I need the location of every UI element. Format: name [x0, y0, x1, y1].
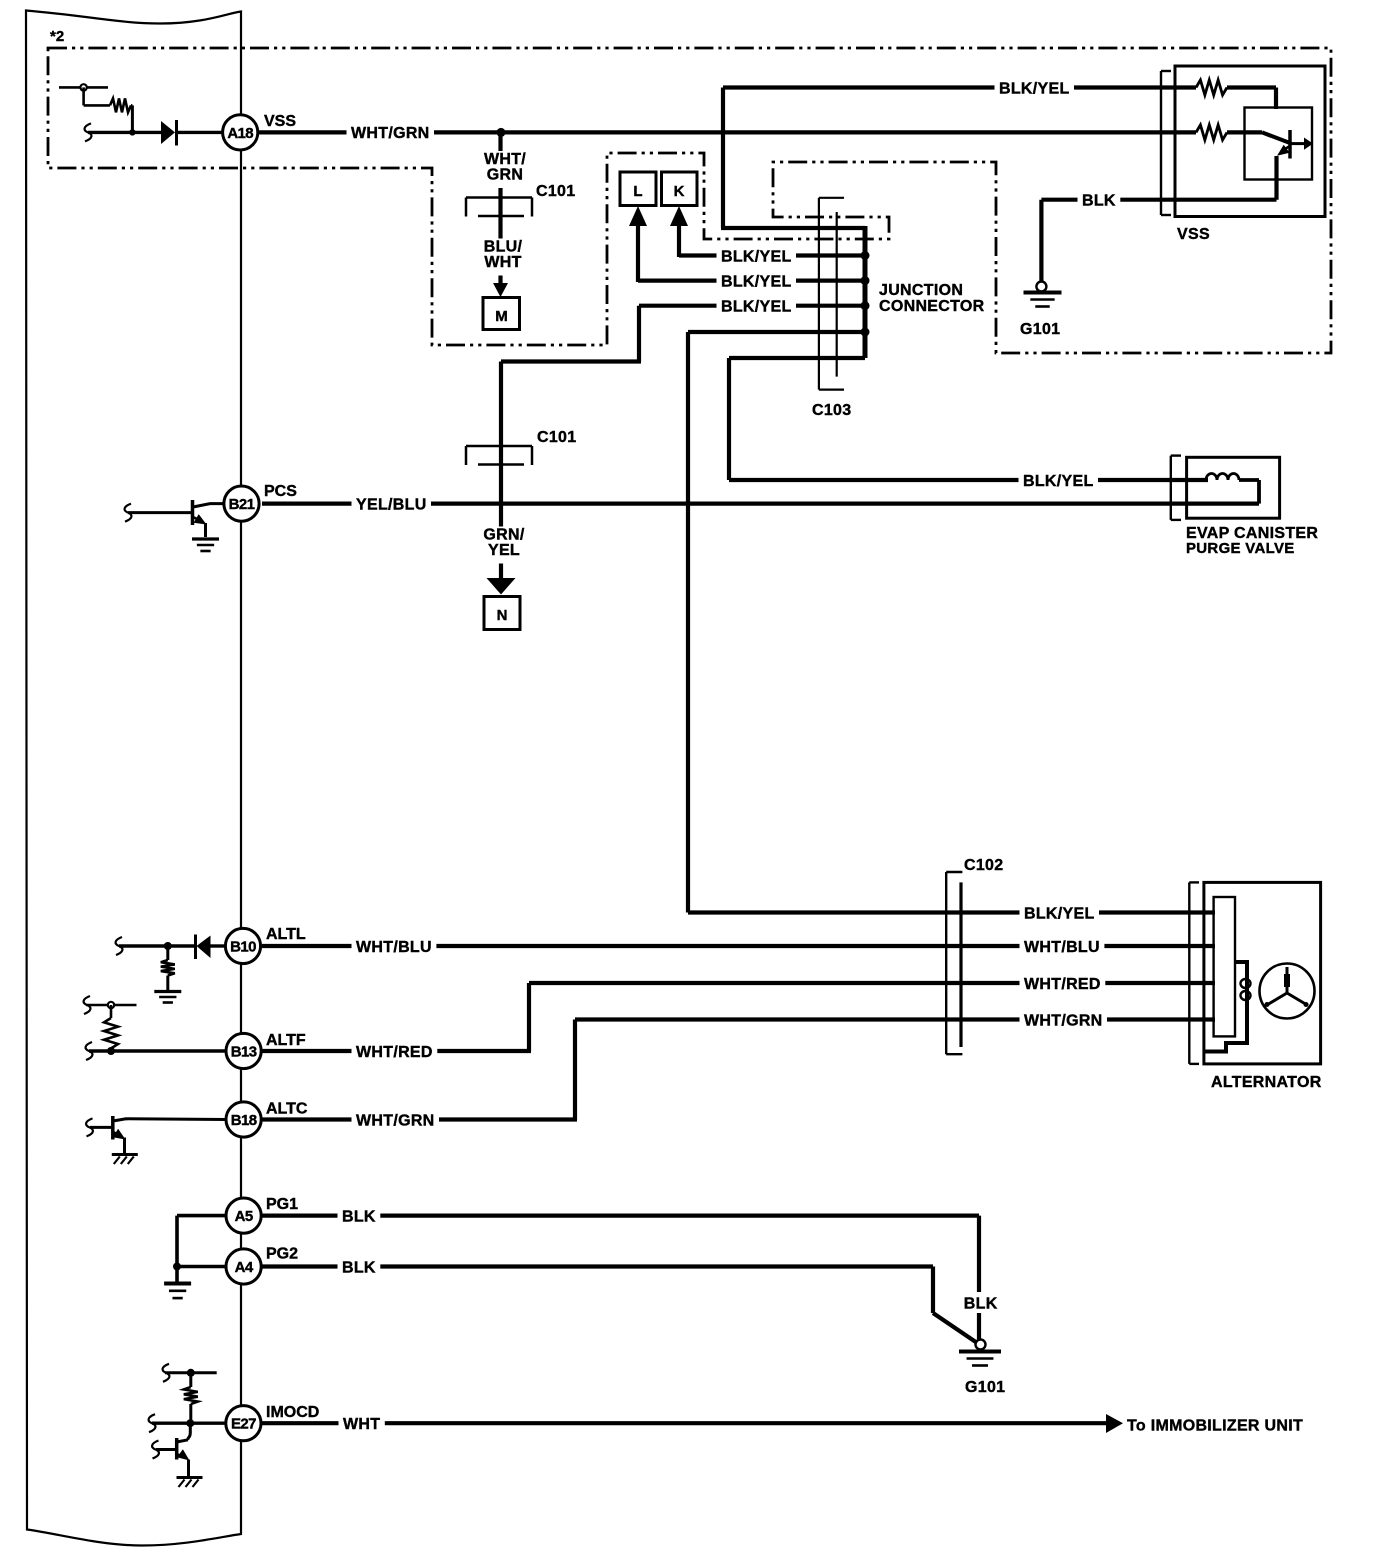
- resistor pull-up at E27: [165, 1373, 217, 1423]
- label BLK (PG2): [338, 1256, 381, 1277]
- svg-text:C101: C101: [536, 183, 575, 200]
- resistor pull-up at A18: [59, 84, 132, 132]
- ground at B10: [154, 992, 181, 1003]
- wire BLK/YEL to K box: [679, 226, 865, 257]
- transistor box in VSS: [1245, 108, 1313, 180]
- connector pin B21: [224, 486, 259, 521]
- box N: [484, 597, 520, 630]
- wire YEL/BLU (B21 PCS row): [262, 502, 1259, 506]
- wire WHT/GRN (B18 ALTC row): [262, 1020, 1215, 1120]
- wire break B21 internal: [125, 504, 132, 522]
- wire break B10 internal: [116, 937, 123, 955]
- junction connector bus C103: [863, 226, 868, 358]
- svg-text:CONNECTOR: CONNECTOR: [879, 298, 985, 315]
- label *2: [50, 28, 64, 45]
- svg-text:N: N: [497, 607, 508, 624]
- label BLK/YEL (EVAP): [1019, 470, 1099, 491]
- svg-text:WHT/GRN: WHT/GRN: [1024, 1012, 1103, 1029]
- node dot bus 4: [861, 328, 870, 337]
- wire WHT/GRN (A18 VSS row): [258, 130, 1196, 134]
- svg-text:VSS: VSS: [264, 113, 296, 130]
- resistor to ground at B10: [161, 946, 175, 991]
- diode D2 at B10: [196, 935, 211, 960]
- wire A18 internal row: [88, 131, 223, 134]
- svg-text:BLK: BLK: [1082, 193, 1116, 210]
- connector bracket at VSS: [1161, 71, 1171, 215]
- wire break A18 internal: [85, 123, 92, 141]
- svg-text:M: M: [495, 308, 508, 325]
- wire A5 internal row: [177, 1214, 226, 1218]
- svg-text:C101: C101: [537, 429, 576, 446]
- svg-text:WHT/GRN: WHT/GRN: [351, 125, 430, 142]
- dash-dot harness boundary (*2 region): [48, 48, 1331, 353]
- wire A4 internal row: [177, 1265, 226, 1269]
- svg-text:B21: B21: [229, 496, 255, 513]
- svg-text:WHT: WHT: [484, 254, 521, 271]
- solenoid coil in EVAP valve: [1171, 474, 1259, 504]
- wire E27 internal row: [152, 1421, 226, 1424]
- ground at B18 (hatched): [112, 1155, 138, 1165]
- svg-text:WHT/BLU: WHT/BLU: [1024, 939, 1100, 956]
- connector pin A5: [226, 1198, 261, 1233]
- arrowhead To IMMOBILIZER UNIT: [1106, 1414, 1123, 1433]
- label EVAP CANISTER PURGE VALVE: [1186, 525, 1318, 557]
- box M (meter): [483, 298, 520, 330]
- wire BLK/YEL to N box column: [501, 306, 865, 362]
- svg-text:WHT/GRN: WHT/GRN: [356, 1112, 435, 1129]
- svg-text:C103: C103: [812, 402, 851, 419]
- svg-text:*2: *2: [50, 28, 64, 45]
- wire WHT/GRN vertical drop to C101/M: [498, 132, 502, 284]
- label BLK (PG1): [338, 1205, 381, 1226]
- svg-text:L: L: [633, 183, 642, 200]
- label G101 (bottom): [965, 1379, 1005, 1396]
- ground G101 (bottom): [959, 1340, 1001, 1366]
- label WHT (E27 row): [339, 1413, 385, 1434]
- svg-text:C102: C102: [964, 857, 1003, 874]
- svg-text:BLU/: BLU/: [484, 239, 523, 256]
- label BLK/YEL (N row): [717, 295, 797, 316]
- svg-text:PG1: PG1: [266, 1196, 298, 1213]
- wire break E27 top: [163, 1364, 170, 1382]
- svg-text:B13: B13: [231, 1044, 257, 1061]
- label WHT/GRN (C101 drop): [480, 151, 530, 188]
- label BLK/YEL (top): [995, 77, 1075, 98]
- alternator internal connector strip: [1214, 897, 1235, 1036]
- ground at E27 (hatched): [177, 1478, 203, 1488]
- label VSS: [1177, 226, 1210, 243]
- label BLK/YEL (K row): [717, 245, 797, 266]
- node dot bus 2: [861, 276, 870, 285]
- wire break E27 base: [152, 1441, 159, 1459]
- label VSS pin name: [264, 113, 296, 130]
- node dot E27 row: [186, 1419, 194, 1427]
- wire GRN/YEL vertical through C101 to N box: [499, 362, 503, 581]
- svg-text:WHT/RED: WHT/RED: [356, 1044, 433, 1061]
- transistor Q1 base bar: [1288, 130, 1292, 159]
- label BLU/WHT (to M): [480, 239, 527, 276]
- wire BLK/YEL vertical from top to junction connector: [721, 88, 865, 229]
- wire BLK/YEL junction to alternator: [688, 332, 1215, 913]
- connector C101 (middle): [466, 446, 532, 465]
- wire B13 internal row: [89, 1049, 226, 1052]
- svg-text:E27: E27: [231, 1416, 256, 1433]
- svg-text:BLK: BLK: [342, 1259, 376, 1276]
- label ALTF pin name: [266, 1032, 306, 1049]
- pin stub WHT/GRN: [1204, 1018, 1215, 1022]
- alternator box: [1204, 882, 1321, 1064]
- arrow into N box: [487, 578, 516, 595]
- svg-text:A18: A18: [227, 125, 253, 142]
- box K: [662, 172, 698, 206]
- transistor Q3 at B18 (ALTC driver): [90, 1116, 226, 1153]
- arrowhead collector: [1304, 138, 1313, 150]
- node junction dot on WHT/GRN at C101 drop: [497, 128, 506, 137]
- box L: [620, 172, 656, 206]
- connector bracket at alternator: [1189, 882, 1199, 1064]
- wire R1 to transistor: [1227, 88, 1276, 110]
- connector pin A4: [226, 1249, 261, 1284]
- svg-text:WHT: WHT: [343, 1416, 380, 1433]
- arrowhead into L: [629, 206, 647, 226]
- svg-text:GRN/: GRN/: [483, 527, 524, 544]
- svg-text:G101: G101: [965, 1379, 1005, 1396]
- svg-text:WHT/RED: WHT/RED: [1024, 976, 1101, 993]
- wire BLK to G101: [1039, 200, 1043, 281]
- wire emitter to BLK: [1041, 156, 1276, 200]
- label BLK (VSS ground): [1078, 189, 1121, 210]
- svg-text:IMOCD: IMOCD: [266, 1404, 319, 1421]
- svg-text:ALTC: ALTC: [266, 1101, 308, 1118]
- resistor R1 in VSS: [1196, 80, 1227, 95]
- label WHT/GRN (B18 row): [352, 1109, 440, 1130]
- connector C102: [946, 872, 962, 1054]
- wire BLK (A4 PG2 row): [262, 1267, 977, 1343]
- label BLK (G101 bottom): [959, 1292, 1002, 1313]
- svg-text:BLK/YEL: BLK/YEL: [721, 273, 792, 290]
- ground at A5/A4: [164, 1284, 191, 1299]
- EVAP purge valve box: [1187, 457, 1280, 518]
- resistor pull-up at B13: [84, 996, 137, 1051]
- connector pin B13: [226, 1033, 261, 1068]
- label WHT/BLU (B10 row): [352, 936, 437, 957]
- node dot B13 internal: [107, 1047, 115, 1055]
- label PG2 pin name: [266, 1246, 298, 1263]
- label WHT/RED (alternator): [1020, 973, 1106, 994]
- pin stub BLK/YEL: [1204, 911, 1215, 915]
- svg-text:WHT/: WHT/: [484, 151, 526, 168]
- transistor Q4 at E27 (IMOCD driver): [156, 1423, 190, 1477]
- svg-text:ALTERNATOR: ALTERNATOR: [1211, 1074, 1322, 1091]
- svg-text:ALTF: ALTF: [266, 1032, 306, 1049]
- label YEL/BLU (B21 row): [352, 493, 432, 514]
- node dot B10 internal: [164, 942, 172, 950]
- VSS sensor box: [1175, 66, 1325, 217]
- alternator stator symbol: [1260, 964, 1315, 1019]
- wire break B13 internal: [86, 1042, 93, 1060]
- svg-text:BLK: BLK: [342, 1208, 376, 1225]
- svg-text:BLK/YEL: BLK/YEL: [721, 299, 792, 316]
- transistor Q1 collector: [1290, 142, 1305, 145]
- node dot E27 top: [187, 1369, 195, 1377]
- wire BLK/YEL junction to EVAP purge valve: [729, 358, 1208, 480]
- connector pin B18: [226, 1102, 261, 1137]
- arrowhead emitter: [1277, 145, 1290, 156]
- label WHT/GRN (alternator): [1020, 1009, 1108, 1030]
- label C102: [964, 857, 1003, 874]
- wire A5-A4 ground link: [175, 1216, 179, 1282]
- wire R2 to transistor base: [1227, 132, 1289, 142]
- svg-text:BLK: BLK: [964, 1295, 998, 1312]
- node dot bus 3: [861, 301, 870, 310]
- svg-text:PCS: PCS: [264, 483, 297, 500]
- wire WHT/BLU (B10 ALTL row): [262, 944, 1215, 948]
- connector C101 (top): [466, 198, 532, 217]
- wire BLK (A5 PG1 row): [262, 1216, 979, 1339]
- wire WHT/RED (B13 ALTF row): [262, 983, 1215, 1051]
- label WHT/GRN (A18 row): [347, 122, 435, 143]
- ground G101 (VSS): [1024, 282, 1062, 307]
- label GRN/YEL (to N): [479, 527, 528, 564]
- ground at B21: [192, 539, 219, 551]
- label WHT/RED (B13 row): [352, 1041, 438, 1062]
- wire B10 internal row: [119, 944, 226, 947]
- connector bracket at EVAP valve: [1171, 456, 1181, 520]
- svg-text:WHT/BLU: WHT/BLU: [356, 939, 432, 956]
- svg-text:BLK/YEL: BLK/YEL: [1023, 473, 1094, 490]
- label PCS pin name: [264, 483, 297, 500]
- node dot bus 1: [861, 251, 870, 260]
- svg-text:YEL/BLU: YEL/BLU: [356, 496, 427, 513]
- svg-text:GRN: GRN: [487, 167, 523, 184]
- label ALTL pin name: [266, 926, 306, 943]
- connector pin A18: [223, 115, 258, 150]
- label ALTERNATOR: [1211, 1074, 1322, 1091]
- svg-text:To IMMOBILIZER UNIT: To IMMOBILIZER UNIT: [1127, 1418, 1303, 1435]
- wire WHT (E27 IMOCD row): [262, 1421, 1108, 1425]
- svg-text:B10: B10: [230, 939, 256, 956]
- connector pin E27: [226, 1406, 261, 1441]
- label G101 (VSS): [1020, 321, 1060, 338]
- label BLK/YEL (L row): [717, 270, 797, 291]
- svg-text:G101: G101: [1020, 321, 1060, 338]
- wire BLK/YEL to L box: [638, 226, 865, 282]
- svg-text:JUNCTION: JUNCTION: [879, 282, 963, 299]
- svg-text:BLK/YEL: BLK/YEL: [1024, 905, 1095, 922]
- svg-text:ALTL: ALTL: [266, 926, 306, 943]
- connector C103 outline: [819, 198, 844, 390]
- svg-text:BLK/YEL: BLK/YEL: [721, 248, 792, 265]
- transistor Q1 emitter: [1284, 146, 1290, 150]
- label BLK/YEL (alternator): [1020, 902, 1100, 923]
- wire break B18 internal: [86, 1118, 93, 1136]
- ECM (engine control module) boundary box with torn edges: [26, 11, 241, 1546]
- node dot A4 internal: [173, 1263, 181, 1271]
- connector pin B10: [225, 928, 260, 963]
- arrowhead into K: [670, 206, 688, 226]
- label PG1 pin name: [266, 1196, 298, 1213]
- transistor Q2 at B21 (PCS driver): [128, 500, 226, 537]
- alternator field winding: [1204, 962, 1251, 1052]
- svg-text:PG2: PG2: [266, 1246, 298, 1263]
- diode D1 at A18: [161, 120, 177, 146]
- node dot A18 internal: [129, 129, 135, 135]
- svg-text:K: K: [674, 183, 685, 200]
- wire break E27 internal: [149, 1414, 156, 1432]
- svg-text:B18: B18: [231, 1112, 257, 1129]
- label IMOCD pin name: [266, 1404, 319, 1421]
- svg-text:PURGE VALVE: PURGE VALVE: [1186, 540, 1295, 557]
- svg-text:BLK/YEL: BLK/YEL: [999, 80, 1070, 97]
- pin stub WHT/RED: [1204, 981, 1215, 985]
- label C101 (top): [536, 183, 575, 200]
- arrow into M box: [493, 283, 508, 297]
- label C101 (middle): [537, 429, 576, 446]
- label To IMMOBILIZER UNIT: [1127, 1418, 1303, 1435]
- label WHT/BLU (alternator): [1020, 936, 1105, 957]
- label C103: [812, 402, 851, 419]
- svg-text:YEL: YEL: [488, 542, 520, 559]
- wire BLK/YEL top horizontal to VSS: [723, 85, 1196, 89]
- pin stub WHT/BLU: [1204, 944, 1215, 948]
- svg-text:A5: A5: [235, 1208, 253, 1225]
- label ALTC pin name: [266, 1101, 308, 1118]
- svg-text:VSS: VSS: [1177, 226, 1210, 243]
- resistor R2 in VSS: [1196, 125, 1227, 140]
- svg-text:A4: A4: [235, 1259, 254, 1276]
- label JUNCTION CONNECTOR: [879, 282, 985, 315]
